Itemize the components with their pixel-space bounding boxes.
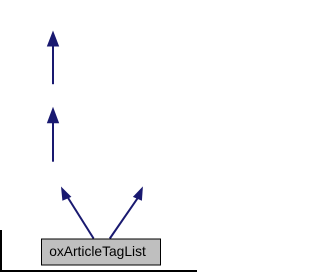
partial box border along bottom edge bbox=[0, 270, 197, 272]
arrow to middle base class (vertical, lower) bbox=[47, 107, 59, 162]
arrow to top base class (vertical, upper) bbox=[47, 31, 59, 85]
svg-text:oxArticleTagList: oxArticleTagList bbox=[49, 244, 146, 259]
node oxArticleTagList bbox=[42, 239, 161, 265]
partial box border at left edge bbox=[0, 230, 2, 272]
wire: right inheritance edge from oxArticleTagList bbox=[110, 186, 143, 238]
wire: left inheritance edge from oxArticleTagList bbox=[61, 187, 94, 239]
inheritance diagram for oxArticleTagList bbox=[0, 0, 197, 272]
